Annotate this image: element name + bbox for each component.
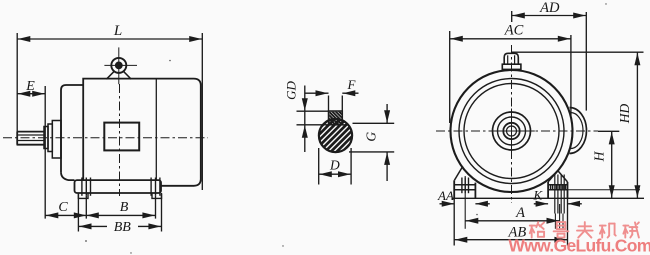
svg-text:G: G: [364, 132, 379, 142]
svg-text:GD: GD: [284, 81, 299, 100]
svg-text:Www.GeLufu.Com: Www.GeLufu.Com: [508, 236, 650, 255]
svg-text:B: B: [120, 200, 129, 215]
svg-text:BB: BB: [114, 220, 132, 235]
svg-text:AA: AA: [437, 188, 454, 203]
svg-text:F: F: [347, 77, 357, 92]
svg-text:C: C: [58, 200, 68, 215]
svg-text:L: L: [113, 23, 122, 39]
svg-text:E: E: [25, 79, 35, 94]
svg-text:D: D: [329, 158, 340, 173]
svg-text:AD: AD: [539, 0, 560, 16]
svg-text:AC: AC: [504, 23, 524, 39]
svg-text:A: A: [515, 205, 525, 221]
svg-text:HD: HD: [617, 104, 632, 125]
svg-text:K: K: [532, 188, 543, 203]
svg-text:H: H: [592, 150, 607, 162]
